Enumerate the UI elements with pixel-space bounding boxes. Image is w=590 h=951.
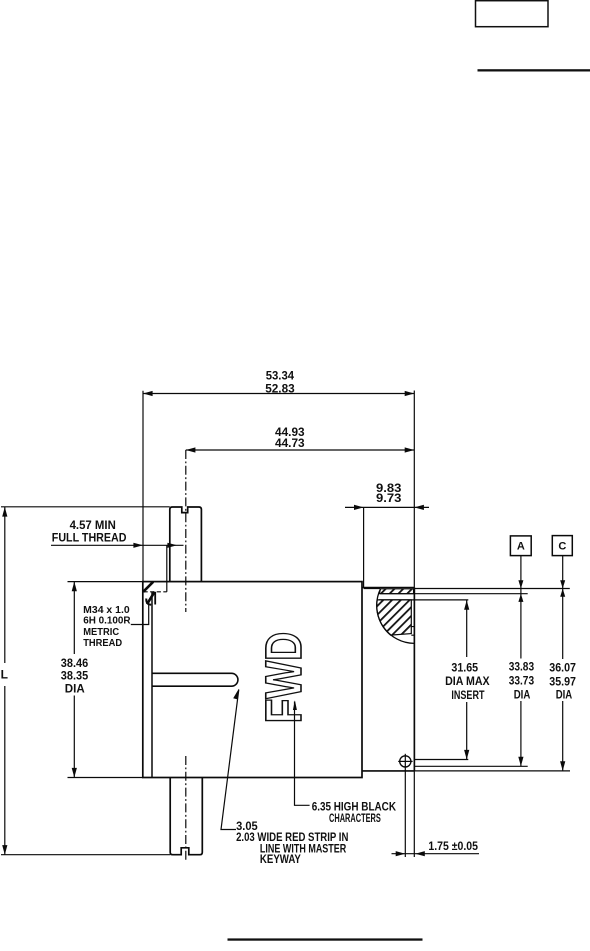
4.57 arrow 1 <box>133 543 143 548</box>
datum A leader arrow <box>518 580 523 588</box>
33.83 arrow top <box>518 594 523 602</box>
38.46 bottom extension <box>68 777 143 779</box>
31.65 top extension <box>379 599 468 601</box>
38.46 arrow bottom <box>72 768 77 778</box>
svg-text:2.03 WIDE RED STRIP IN: 2.03 WIDE RED STRIP IN <box>236 832 348 844</box>
L arrow top <box>2 507 7 517</box>
svg-text:DIA: DIA <box>65 682 85 696</box>
long right extension x=414.3 <box>413 391 415 858</box>
svg-text:6H 0.100R: 6H 0.100R <box>83 616 131 627</box>
keyway pin bar <box>152 673 238 686</box>
slotted collar bottom <box>170 778 202 855</box>
svg-text:M34 x 1.0: M34 x 1.0 <box>83 605 130 616</box>
4.57 dim line <box>51 544 184 546</box>
33.83 arrow bottom <box>518 757 523 767</box>
2.03 leader arrow <box>233 689 239 700</box>
dimension texts <box>1 368 577 702</box>
svg-text:CHARACTERS: CHARACTERS <box>329 813 381 825</box>
svg-text:53.34: 53.34 <box>266 368 295 382</box>
header rule line <box>478 69 590 71</box>
9.83 arrow left (outside) <box>354 505 364 510</box>
38.46 arrow top <box>72 582 77 592</box>
svg-text:INSERT: INSERT <box>451 688 485 702</box>
53.34 arrow left <box>143 391 153 396</box>
cavity slot lines <box>411 627 414 636</box>
footer rule line <box>228 938 423 940</box>
6.35 leader arrow <box>293 700 297 710</box>
flange right section <box>362 588 414 771</box>
gas port circle <box>400 756 411 767</box>
body inner face line <box>151 592 153 778</box>
svg-text:9.73: 9.73 <box>376 491 402 505</box>
L arrow bottom <box>2 845 7 855</box>
collar centerline top (dash-dot) <box>185 450 187 612</box>
31.65 arrow top <box>464 600 469 610</box>
svg-text:C: C <box>558 541 566 553</box>
38.46 dim line <box>73 582 75 654</box>
L dim line <box>4 507 6 663</box>
31.65 dim line <box>466 600 468 657</box>
title block box (empty, top right) <box>476 1 549 27</box>
datum box C <box>552 536 572 556</box>
svg-text:METRIC: METRIC <box>83 627 119 638</box>
9.83 dim line <box>345 506 429 508</box>
svg-text:33.83: 33.83 <box>509 659 535 673</box>
36.07 bottom extension (flange bottom ext) <box>414 770 570 772</box>
svg-text:38.35: 38.35 <box>61 669 89 683</box>
svg-text:6.35 HIGH BLACK: 6.35 HIGH BLACK <box>312 801 397 813</box>
53.34 dim line <box>143 393 414 395</box>
svg-text:FULL THREAD: FULL THREAD <box>52 531 127 545</box>
thin lines: extensions, dims, leaders <box>1 391 572 862</box>
31.65 bottom extension <box>414 759 468 761</box>
svg-text:35.97: 35.97 <box>549 674 576 688</box>
6.35 characters leader (over FWD) <box>295 702 310 806</box>
svg-text:31.65: 31.65 <box>451 661 478 675</box>
thread relief wedge strokes <box>143 582 154 604</box>
33.83 top extension (band bottom line) <box>380 593 528 595</box>
9.83 extensions <box>363 508 365 588</box>
svg-text:FWD: FWD <box>255 632 312 724</box>
4.57 arrow 2 <box>167 543 177 548</box>
svg-text:44.73: 44.73 <box>275 436 305 450</box>
svg-text:36.07: 36.07 <box>549 661 576 675</box>
31.65 arrow bottom <box>464 750 469 760</box>
svg-text:DIA MAX: DIA MAX <box>445 674 490 688</box>
slotted collar top <box>170 507 202 582</box>
A leader + 33.83 dim line <box>520 556 522 659</box>
svg-text:33.73: 33.73 <box>509 673 535 687</box>
C leader + 36.07 dim line <box>562 556 564 659</box>
svg-text:DIA: DIA <box>514 687 531 701</box>
svg-text:A: A <box>517 541 525 553</box>
2.03 red strip leader <box>221 690 239 830</box>
svg-text:DIA: DIA <box>556 687 573 701</box>
53.34 left extension / body edge extension up <box>142 391 144 582</box>
svg-text:L: L <box>1 668 8 682</box>
36.07 arrow bottom <box>560 761 565 771</box>
svg-text:THREAD: THREAD <box>83 638 122 649</box>
44.93 dim line <box>186 449 414 451</box>
53.34 arrow right <box>405 391 415 396</box>
M34 leader <box>131 604 149 625</box>
gas port vertical extension <box>404 754 406 857</box>
9.83 arrow right (outside) <box>414 505 424 510</box>
44.93 arrow right <box>405 447 415 452</box>
collar centerline bottom (dash-dot) <box>185 756 187 862</box>
svg-text:1.75 ±0.05: 1.75 ±0.05 <box>428 841 478 853</box>
4.57 right extension <box>166 545 168 592</box>
36.07 arrow top <box>560 589 565 597</box>
svg-text:3.05: 3.05 <box>236 821 258 833</box>
cavity outer arc <box>377 589 415 644</box>
38.46 top extension <box>68 581 143 583</box>
svg-text:52.83: 52.83 <box>265 382 295 396</box>
33.83 bottom extension <box>414 765 527 767</box>
datum box A <box>510 536 531 556</box>
1.75 arrow left (outside) <box>396 851 406 856</box>
datum C leader arrow <box>560 580 565 588</box>
1.75 dim line <box>392 853 480 855</box>
44.93 arrow left <box>186 447 196 452</box>
svg-text:KEYWAY: KEYWAY <box>260 854 301 866</box>
L top extension <box>1 506 170 508</box>
body outline <box>143 582 362 778</box>
1.75 arrow right (outside) <box>415 851 425 856</box>
hatched seal band <box>379 589 413 594</box>
arrows <box>2 391 565 856</box>
flange top extension to right <box>414 588 569 590</box>
L bottom extension <box>1 854 170 856</box>
hatched insert cavity section <box>377 600 412 635</box>
